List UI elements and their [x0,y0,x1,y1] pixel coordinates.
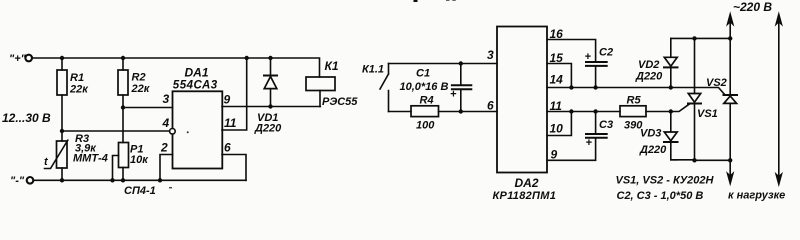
wire top right net [671,37,730,39]
wire pin4 [62,129,175,135]
thyristor VS2 [724,38,738,160]
svg-text:VS2: VS2 [706,77,727,89]
svg-text:С1: С1 [416,68,430,80]
terminal minus [27,177,34,184]
svg-text:DA2: DA2 [515,176,539,190]
svg-text:К1: К1 [325,59,339,73]
node pin15 drop [569,85,573,89]
IC DA2 [497,27,547,173]
wire bottom right-circuit [389,111,498,113]
svg-text:11: 11 [224,116,237,130]
resistor R5 [620,106,646,117]
svg-text:2: 2 [160,141,168,155]
node pin4 junction [60,129,64,133]
arrow to load [727,160,733,184]
svg-text:22к: 22к [69,84,89,96]
svg-text:СП4-1: СП4-1 [124,185,156,197]
node top pin11 riser [245,56,249,60]
potentiometer P1 [113,143,129,181]
svg-text:к нагрузке: к нагрузке [728,190,785,202]
svg-text:10,0*16 В: 10,0*16 В [400,81,449,93]
svg-text:ММТ-4: ММТ-4 [73,153,108,165]
speck inside DA1 [187,131,189,133]
top edge text remnants [414,0,456,2]
wire pin9 [222,106,320,108]
thermistor R3 [45,140,68,180]
wire pin11 [222,58,247,130]
capacitor C2 [586,62,607,88]
svg-text:6: 6 [487,99,494,113]
svg-text:С2, С3 - 1,0*50 В: С2, С3 - 1,0*50 В [617,190,704,202]
svg-text:R1: R1 [70,72,84,84]
op-amp DA1 [173,91,223,168]
capacitor C1 [452,64,471,112]
node bottom R3 [60,178,64,182]
relay K1 [306,77,335,107]
svg-text:КР1182ПМ1: КР1182ПМ1 [493,190,557,202]
wire pin10 [547,112,571,136]
node top R2 [121,56,125,60]
node C1 top [459,61,463,65]
svg-text:Д220: Д220 [639,144,667,156]
wire pin3 [123,107,173,109]
svg-text:"-": "-" [10,175,25,187]
svg-text:14: 14 [550,73,564,87]
resistor R4 [411,106,439,117]
svg-text:Д220: Д220 [254,123,282,135]
node bottom wiper [110,178,114,182]
svg-text:100: 100 [416,120,435,132]
diode VD1 [264,58,277,107]
svg-text:16: 16 [550,27,564,41]
node bottom P1 [121,178,125,182]
node top R1 [60,56,64,60]
svg-text:12...30 В: 12...30 В [2,111,51,125]
node VS2 top [728,36,732,40]
svg-text:15: 15 [550,51,564,65]
resistor R1 [57,58,67,141]
svg-text:Д220: Д220 [635,71,663,83]
node pin3 junction [121,105,125,109]
svg-text:10: 10 [550,122,564,136]
speck after SP4-1 [169,187,172,188]
node top VD1 [268,56,272,60]
node C3 top [593,109,597,113]
svg-text:К1.1: К1.1 [362,64,384,76]
node VS2 bottom [728,158,732,162]
svg-text:9: 9 [224,93,231,107]
resistor R2 [118,58,128,143]
diode VD3 [664,112,695,160]
node bottom pin2 [158,178,162,182]
node pin10 drop [569,109,573,113]
wire pin6 [222,155,246,181]
svg-text:6: 6 [224,141,231,155]
node VD2 bottom [669,85,673,89]
svg-text:"+": "+" [9,53,27,65]
svg-text:DA1: DA1 [185,66,209,80]
wire pin11 [547,104,689,111]
svg-text:VD2: VD2 [638,59,659,71]
node C2 bottom [593,85,597,89]
svg-text:9: 9 [551,148,558,162]
svg-text:РЭС55: РЭС55 [322,96,358,108]
diode VD2 [664,38,678,87]
wire top rail [32,58,320,77]
wire pin15 [547,64,571,88]
wire pin16 [547,40,596,62]
svg-text:4: 4 [162,116,170,130]
arrow 220V [727,13,733,38]
svg-text:3: 3 [163,92,170,106]
wire top right-circuit [389,63,498,65]
node VD3 R5 [669,109,673,113]
node VS1 bottom [692,158,696,162]
svg-text:11: 11 [550,99,563,113]
node VS1 top [692,36,696,40]
svg-text:554СА3: 554СА3 [173,80,218,92]
svg-text:22к: 22к [131,83,151,95]
svg-text:+: + [585,51,592,63]
wire bottom rail [33,179,246,181]
svg-text:3: 3 [487,48,494,62]
terminal plus [25,55,32,62]
svg-text:VD3: VD3 [640,128,661,140]
svg-text:+: + [586,137,593,149]
node C1 bottom [459,109,463,113]
svg-text:С3: С3 [599,119,613,131]
svg-text:VS1: VS1 [697,108,718,120]
svg-text:С2: С2 [599,47,613,59]
svg-text:R5: R5 [627,95,642,107]
svg-text:VS1, VS2 - КУ202Н: VS1, VS2 - КУ202Н [616,175,715,187]
svg-text:R2: R2 [132,72,146,84]
contact K1.1 [380,64,389,112]
svg-text:R4: R4 [420,95,434,107]
capacitor C3 [586,112,607,138]
svg-text:+: + [450,89,457,101]
svg-text:~220 В: ~220 В [733,0,772,14]
wire bottom right net [695,159,731,161]
wire pin9 [547,139,596,161]
thyristor VS1 [688,38,701,160]
svg-text:10к: 10к [130,154,149,166]
wire pin2 [160,155,173,181]
wire pin14 [547,88,725,95]
arrow load line [776,13,782,185]
node pin9/VD1 [268,104,272,108]
